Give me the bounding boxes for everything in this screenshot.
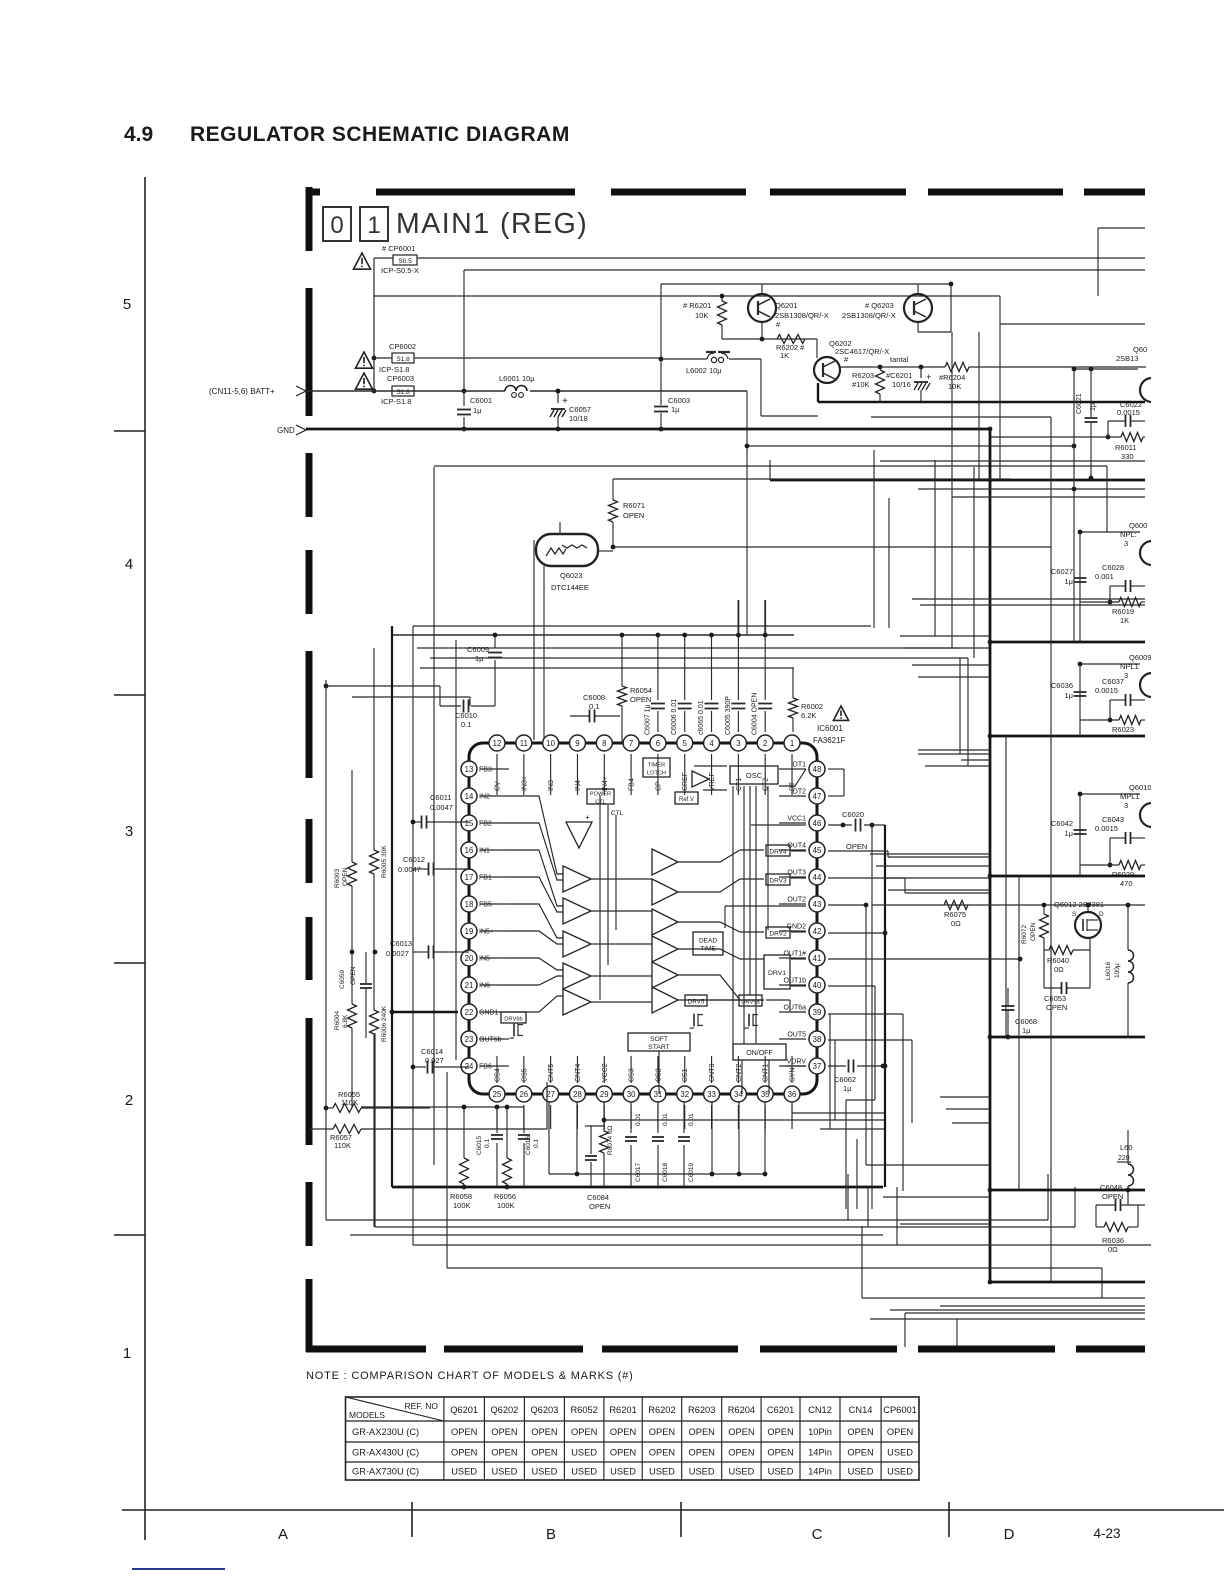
svg-text:R6029: R6029	[1112, 870, 1134, 879]
svg-text:OUT1b: OUT1b	[783, 978, 806, 985]
svg-text:L6001 10μ: L6001 10μ	[499, 374, 535, 383]
svg-text:24: 24	[465, 1062, 474, 1071]
svg-text:R6019: R6019	[1112, 607, 1134, 616]
svg-text:USED: USED	[689, 1466, 715, 1476]
svg-text:26: 26	[519, 1090, 528, 1099]
svg-text:Ref.V: Ref.V	[679, 797, 694, 803]
svg-text:C6037: C6037	[1102, 677, 1124, 686]
svg-text:USED: USED	[451, 1466, 477, 1476]
svg-text:R6036: R6036	[1102, 1236, 1124, 1245]
svg-text:CS4: CS4	[495, 1068, 502, 1082]
svg-text:21: 21	[465, 981, 474, 990]
svg-text:12: 12	[493, 739, 502, 748]
svg-text:FA3621F: FA3621F	[813, 736, 846, 745]
svg-text:0.1: 0.1	[533, 1139, 540, 1148]
svg-text:R6071: R6071	[623, 501, 645, 510]
svg-text:USED: USED	[848, 1466, 874, 1476]
svg-text:ICP-S0.5-X: ICP-S0.5-X	[381, 266, 419, 275]
svg-text:GR-AX230U (C): GR-AX230U (C)	[352, 1427, 419, 1437]
svg-text:1K: 1K	[1120, 616, 1129, 625]
svg-text:USED: USED	[728, 1466, 754, 1476]
svg-text:1μ: 1μ	[475, 654, 484, 663]
svg-text:1μ: 1μ	[843, 1084, 852, 1093]
svg-text:Q6203: Q6203	[530, 1405, 558, 1415]
svg-text:OPEN: OPEN	[491, 1447, 517, 1457]
svg-text:28: 28	[573, 1090, 582, 1099]
svg-text:CP: CP	[655, 781, 662, 791]
svg-text:D: D	[1004, 1526, 1015, 1543]
svg-text:DRV6b: DRV6b	[504, 1017, 523, 1023]
svg-text:2: 2	[125, 1092, 133, 1109]
svg-text:C6053: C6053	[1044, 994, 1066, 1003]
svg-text:3: 3	[736, 739, 740, 748]
svg-text:OPEN: OPEN	[623, 511, 644, 520]
svg-text:27: 27	[546, 1090, 555, 1099]
svg-text:2SB1308/QR/-X: 2SB1308/QR/-X	[775, 311, 829, 320]
svg-text:+: +	[562, 396, 568, 407]
svg-text:R6202: R6202	[648, 1405, 675, 1415]
svg-text:B: B	[546, 1526, 556, 1543]
svg-text:10: 10	[546, 739, 555, 748]
svg-text:4: 4	[125, 556, 133, 573]
svg-text:OPEN: OPEN	[630, 695, 651, 704]
svg-text:R6003: R6003	[334, 868, 341, 888]
svg-text:ON/OFF: ON/OFF	[746, 1050, 772, 1057]
svg-text:29: 29	[600, 1090, 609, 1099]
svg-text:39: 39	[813, 1008, 822, 1017]
svg-text:OPEN: OPEN	[887, 1427, 913, 1437]
svg-text:IN2-: IN2-	[479, 794, 493, 801]
svg-text:CNT5: CNT5	[548, 1064, 555, 1082]
svg-text:NPL:: NPL:	[1120, 530, 1137, 539]
svg-text:R6075: R6075	[944, 910, 966, 919]
svg-text:OUT6a: OUT6a	[783, 1005, 806, 1012]
svg-text:OUT1#: OUT1#	[783, 951, 806, 958]
svg-text:USED: USED	[571, 1447, 597, 1457]
svg-text:S1.8: S1.8	[396, 389, 410, 396]
svg-text:CNT3: CNT3	[709, 1064, 716, 1082]
svg-text:100K: 100K	[453, 1201, 471, 1210]
svg-text:4.9: 4.9	[124, 123, 153, 146]
svg-text:A: A	[278, 1526, 288, 1543]
svg-text:USED: USED	[887, 1447, 913, 1457]
svg-text:C6084: C6084	[587, 1193, 609, 1202]
svg-text:0.1: 0.1	[461, 720, 471, 729]
svg-text:CP6003: CP6003	[387, 374, 414, 383]
svg-text:L6016: L6016	[1105, 962, 1112, 980]
svg-text:CS3: CS3	[629, 1068, 636, 1082]
svg-text:R6006 240K: R6006 240K	[381, 1005, 388, 1042]
svg-text:3: 3	[125, 823, 133, 840]
svg-text:CV: CV	[495, 781, 502, 791]
svg-text:ICP-S1.8: ICP-S1.8	[379, 365, 409, 374]
svg-text:10K: 10K	[948, 382, 961, 391]
svg-text:ICP-S1.8: ICP-S1.8	[381, 397, 411, 406]
svg-text:6.2K: 6.2K	[801, 711, 816, 720]
svg-text:L6002 10μ: L6002 10μ	[686, 366, 722, 375]
svg-text:OPEN: OPEN	[847, 1427, 873, 1437]
svg-text:R6204: R6204	[728, 1405, 755, 1415]
svg-text:33: 33	[707, 1090, 716, 1099]
svg-text:C6009: C6009	[467, 645, 489, 654]
svg-text:D: D	[1099, 911, 1104, 918]
svg-text:C6010: C6010	[455, 711, 477, 720]
svg-text:c6065 0.01: c6065 0.01	[698, 700, 705, 735]
svg-text:C6021: C6021	[1076, 393, 1083, 414]
svg-text:C6062: C6062	[834, 1075, 856, 1084]
svg-text:0: 0	[330, 212, 343, 239]
svg-text:USED: USED	[491, 1466, 517, 1476]
svg-text:43: 43	[813, 900, 822, 909]
svg-text:FB4: FB4	[629, 778, 636, 791]
svg-text:10K: 10K	[695, 311, 708, 320]
svg-text:LOTCH: LOTCH	[647, 771, 666, 777]
svg-text:GR-AX430U (C): GR-AX430U (C)	[352, 1447, 419, 1457]
svg-text:R6005 30K: R6005 30K	[381, 845, 388, 878]
svg-text:OUT5: OUT5	[787, 1032, 806, 1039]
svg-text:OPEN: OPEN	[1046, 1003, 1067, 1012]
svg-text:FB2: FB2	[479, 821, 492, 828]
svg-text:Q600: Q600	[1129, 521, 1147, 530]
svg-text:C6007 1μ: C6007 1μ	[644, 705, 651, 736]
svg-text:R6072: R6072	[1021, 924, 1028, 944]
svg-text:FB1: FB1	[479, 875, 492, 882]
svg-text:6: 6	[656, 739, 660, 748]
svg-text:R6040: R6040	[1047, 956, 1069, 965]
svg-text:CS1: CS1	[682, 1068, 689, 1082]
svg-text:SYN: SYN	[790, 1068, 797, 1082]
svg-text:1K: 1K	[780, 351, 789, 360]
svg-text:17: 17	[465, 873, 474, 882]
svg-text:IN3-: IN3-	[548, 777, 555, 791]
svg-text:DTC144EE: DTC144EE	[551, 583, 589, 592]
svg-text:IN6-: IN6-	[479, 983, 493, 990]
svg-text:C: C	[812, 1526, 823, 1543]
svg-text:CN12: CN12	[808, 1405, 832, 1415]
svg-text:47: 47	[813, 792, 822, 801]
svg-text:VDRV: VDRV	[787, 1059, 807, 1066]
svg-text:SOFT: SOFT	[650, 1036, 668, 1043]
svg-text:REGULATOR SCHEMATIC DIAGRAM: REGULATOR SCHEMATIC DIAGRAM	[190, 123, 570, 146]
svg-text:#C6201: #C6201	[886, 371, 912, 380]
svg-text:S1.8: S1.8	[396, 356, 410, 363]
svg-text:USED: USED	[649, 1466, 675, 1476]
svg-text:1μ: 1μ	[1065, 829, 1074, 838]
svg-text:C6011: C6011	[430, 793, 452, 802]
svg-text:38: 38	[813, 1035, 822, 1044]
svg-text:DEAD: DEAD	[699, 938, 717, 945]
svg-text:23: 23	[465, 1035, 474, 1044]
svg-text:18: 18	[465, 900, 474, 909]
svg-text:C6003: C6003	[668, 396, 690, 405]
svg-text:C6059: C6059	[339, 969, 346, 989]
svg-text:0Ω: 0Ω	[1054, 965, 1064, 974]
svg-text:10/18: 10/18	[569, 414, 588, 423]
svg-text:REF. NO: REF. NO	[404, 1401, 438, 1411]
svg-text:0.0027: 0.0027	[386, 949, 409, 958]
svg-text:0.1: 0.1	[484, 1139, 491, 1148]
svg-text:41: 41	[813, 954, 822, 963]
svg-text:48: 48	[813, 765, 822, 774]
svg-text:C6057: C6057	[569, 405, 591, 414]
svg-text:0.0015: 0.0015	[1095, 686, 1118, 695]
svg-text:OPEN: OPEN	[847, 1447, 873, 1457]
svg-text:(CN11-5,6) BATT+: (CN11-5,6) BATT+	[209, 387, 275, 396]
svg-text:GR-AX730U (C): GR-AX730U (C)	[352, 1466, 419, 1476]
svg-text:1μ: 1μ	[1022, 1026, 1031, 1035]
svg-text:C6018: C6018	[662, 1162, 669, 1182]
svg-text:R6011: R6011	[1115, 443, 1137, 452]
svg-text:IN1-: IN1-	[479, 848, 493, 855]
svg-text:25: 25	[493, 1090, 502, 1099]
svg-text:C6043: C6043	[1102, 815, 1124, 824]
svg-text:OPEN: OPEN	[728, 1427, 754, 1437]
svg-text:R6058: R6058	[450, 1192, 472, 1201]
svg-text:C6019: C6019	[688, 1162, 695, 1182]
svg-text:OPEN: OPEN	[491, 1427, 517, 1437]
svg-text:Q6010: Q6010	[1129, 783, 1152, 792]
svg-text:MAIN1 (REG): MAIN1 (REG)	[396, 208, 588, 240]
svg-text:32: 32	[680, 1090, 689, 1099]
svg-text:C6017: C6017	[635, 1162, 642, 1182]
svg-text:14Pin: 14Pin	[808, 1466, 832, 1476]
svg-text:OPEN: OPEN	[571, 1427, 597, 1437]
svg-text:USED: USED	[571, 1466, 597, 1476]
svg-text:4-23: 4-23	[1093, 1526, 1120, 1541]
svg-text:46: 46	[813, 819, 822, 828]
svg-text:DRV1: DRV1	[768, 970, 786, 977]
svg-text:3: 3	[1124, 801, 1128, 810]
svg-text:R6054: R6054	[630, 686, 652, 695]
svg-text:Q6202: Q6202	[490, 1405, 518, 1415]
svg-text:C6201: C6201	[767, 1405, 794, 1415]
svg-text:OPEN: OPEN	[689, 1427, 715, 1437]
svg-text:C6008: C6008	[583, 693, 605, 702]
svg-text:1: 1	[790, 739, 794, 748]
svg-text:C6013: C6013	[390, 939, 412, 948]
svg-text:NOTE : COMPARISON CHART OF: NOTE : COMPARISON CHART OF MODELS & MARK…	[306, 1370, 634, 1382]
svg-text:19: 19	[465, 927, 474, 936]
svg-text:14Pin: 14Pin	[808, 1447, 832, 1457]
svg-text:2SB13: 2SB13	[1116, 354, 1139, 363]
svg-text:2: 2	[763, 739, 767, 748]
svg-text:OPEN: OPEN	[451, 1427, 477, 1437]
svg-text:Q6009: Q6009	[1129, 653, 1152, 662]
svg-text:1μ: 1μ	[473, 406, 482, 415]
svg-text:1: 1	[367, 212, 380, 239]
svg-text:0.0015: 0.0015	[1095, 824, 1118, 833]
svg-text:OPEN: OPEN	[1030, 922, 1037, 941]
svg-text:OPEN: OPEN	[451, 1447, 477, 1457]
svg-text:110K: 110K	[334, 1141, 351, 1150]
svg-text:R6002: R6002	[801, 702, 823, 711]
svg-text:100μ: 100μ	[1114, 963, 1121, 978]
svg-text:#10K: #10K	[852, 380, 870, 389]
svg-text:USED: USED	[610, 1466, 636, 1476]
svg-text:GND: GND	[277, 426, 295, 435]
svg-text:USED: USED	[531, 1466, 557, 1476]
svg-text:7: 7	[629, 739, 633, 748]
svg-text:100K: 100K	[497, 1201, 515, 1210]
svg-text:IN5+: IN5+	[479, 929, 494, 936]
svg-text:OPEN: OPEN	[689, 1447, 715, 1457]
svg-text:CNT4: CNT4	[575, 1064, 582, 1082]
svg-text:OPEN: OPEN	[610, 1427, 636, 1437]
svg-text:# R6201: # R6201	[683, 301, 711, 310]
svg-text:S: S	[1072, 911, 1077, 918]
svg-text:0.0047: 0.0047	[430, 803, 453, 812]
svg-text:C6028: C6028	[1102, 563, 1124, 572]
svg-text:OPEN: OPEN	[649, 1427, 675, 1437]
svg-text:0Ω: 0Ω	[1108, 1245, 1118, 1254]
svg-text:IN3+: IN3+	[521, 776, 528, 791]
svg-text:10/16: 10/16	[892, 380, 911, 389]
svg-text:40: 40	[813, 981, 822, 990]
svg-text:C6036: C6036	[1051, 681, 1073, 690]
svg-text:Q6201: Q6201	[775, 301, 798, 310]
svg-text:C6014: C6014	[421, 1047, 443, 1056]
svg-text:VREF: VREF	[709, 772, 716, 791]
svg-text:OPEN: OPEN	[350, 966, 357, 985]
svg-text:L60: L60	[1120, 1143, 1133, 1152]
svg-text:TIMER: TIMER	[648, 763, 665, 769]
svg-text:C6015: C6015	[476, 1135, 483, 1155]
svg-text:CREF: CREF	[682, 772, 689, 791]
svg-text:CP6002: CP6002	[389, 342, 416, 351]
svg-text:FB6: FB6	[479, 1064, 492, 1071]
svg-text:10Pin: 10Pin	[808, 1427, 832, 1437]
svg-text:IN4-: IN4-	[575, 777, 582, 791]
svg-text:OPEN: OPEN	[531, 1427, 557, 1437]
svg-text:OPEN: OPEN	[610, 1447, 636, 1457]
svg-text:R6056: R6056	[494, 1192, 516, 1201]
svg-text:START: START	[648, 1044, 670, 1051]
svg-text:OPEN: OPEN	[767, 1447, 793, 1457]
svg-text:11: 11	[520, 739, 528, 748]
svg-text:5: 5	[123, 296, 131, 313]
svg-text:9: 9	[575, 739, 579, 748]
svg-text:2SB1308/QR/-X: 2SB1308/QR/-X	[842, 311, 896, 320]
svg-text:36: 36	[788, 1090, 797, 1099]
svg-text:FB3: FB3	[479, 767, 492, 774]
svg-text:C6006 0.01: C6006 0.01	[671, 699, 678, 735]
svg-text:C6001: C6001	[470, 396, 492, 405]
svg-text:1: 1	[123, 1345, 131, 1362]
svg-text:Q60: Q60	[1133, 345, 1147, 354]
svg-text:15: 15	[465, 819, 474, 828]
svg-text:R6004: R6004	[334, 1010, 341, 1030]
svg-text:DT1: DT1	[793, 762, 806, 769]
svg-text:DRV3: DRV3	[769, 878, 787, 885]
svg-text:USED: USED	[887, 1466, 913, 1476]
svg-text:1μ: 1μ	[1065, 577, 1074, 586]
svg-text:R6052: R6052	[570, 1405, 597, 1415]
svg-text:14: 14	[465, 792, 474, 801]
svg-text:1μ: 1μ	[1090, 403, 1097, 411]
svg-text:OPEN: OPEN	[846, 842, 867, 851]
svg-text:S0.5: S0.5	[398, 258, 412, 265]
svg-text:13: 13	[465, 765, 474, 774]
svg-text:CP6001: CP6001	[883, 1405, 917, 1415]
svg-text:22: 22	[465, 1008, 474, 1017]
svg-text:5: 5	[683, 739, 688, 748]
svg-text:C6027: C6027	[1051, 567, 1073, 576]
svg-text:Q6012 2SJ381: Q6012 2SJ381	[1054, 900, 1104, 909]
svg-text:OPEN: OPEN	[728, 1447, 754, 1457]
svg-text:MODELS: MODELS	[349, 1410, 385, 1420]
svg-text:USED: USED	[768, 1466, 794, 1476]
svg-text:C6012: C6012	[403, 855, 425, 864]
svg-text:VCC2: VCC2	[602, 1063, 609, 1082]
svg-text:MPL1: MPL1	[1120, 792, 1140, 801]
svg-text:16: 16	[465, 846, 474, 855]
svg-text:4: 4	[709, 739, 714, 748]
svg-text:OUT6b: OUT6b	[479, 1037, 502, 1044]
svg-text:DT2: DT2	[793, 789, 806, 796]
svg-text:31: 31	[654, 1090, 663, 1099]
svg-text:C6004 OPEN: C6004 OPEN	[752, 693, 759, 735]
svg-text:30: 30	[627, 1090, 636, 1099]
svg-text:R6023: R6023	[1112, 725, 1134, 734]
svg-text:C6042: C6042	[1051, 819, 1073, 828]
svg-text:Q6023: Q6023	[560, 571, 583, 580]
svg-text:IC6001: IC6001	[817, 724, 843, 733]
svg-text:IN5-: IN5-	[479, 956, 493, 963]
svg-text:CS5: CS5	[521, 1068, 528, 1082]
svg-text:OPEN: OPEN	[531, 1447, 557, 1457]
svg-text:# Q6203: # Q6203	[865, 301, 894, 310]
svg-text:0.001: 0.001	[1095, 572, 1114, 581]
svg-text:R6203: R6203	[688, 1405, 715, 1415]
svg-text:VCC1: VCC1	[787, 816, 806, 823]
svg-text:45: 45	[813, 846, 822, 855]
svg-text:Q6201: Q6201	[450, 1405, 478, 1415]
svg-text:OUT2: OUT2	[787, 897, 806, 904]
svg-text:3: 3	[1124, 539, 1128, 548]
svg-text:OPEN: OPEN	[649, 1447, 675, 1457]
svg-text:# CP6001: # CP6001	[382, 244, 415, 253]
svg-text:330: 330	[1121, 452, 1134, 461]
svg-text:C6068: C6068	[1015, 1017, 1037, 1026]
svg-text:GND1: GND1	[479, 1010, 499, 1017]
svg-text:FB5: FB5	[479, 902, 492, 909]
svg-text:R6203: R6203	[852, 371, 874, 380]
svg-text:C6005 390P: C6005 390P	[725, 696, 732, 735]
svg-text:3: 3	[1124, 671, 1128, 680]
svg-text:+: +	[926, 372, 931, 382]
svg-text:1μ: 1μ	[1065, 691, 1074, 700]
svg-text:C6048: C6048	[1100, 1183, 1122, 1192]
svg-text:1μ: 1μ	[671, 405, 680, 414]
svg-text:OPEN: OPEN	[767, 1427, 793, 1437]
svg-text:44: 44	[813, 873, 822, 882]
svg-text:NPL1: NPL1	[1120, 662, 1139, 671]
svg-text:CTL: CTL	[611, 810, 624, 817]
svg-text:42: 42	[813, 927, 822, 936]
svg-text:8: 8	[602, 739, 606, 748]
svg-text:37: 37	[813, 1062, 822, 1071]
svg-text:470: 470	[1120, 879, 1133, 888]
svg-text:CN14: CN14	[849, 1405, 873, 1415]
svg-text:C6020: C6020	[842, 810, 864, 819]
svg-text:20: 20	[465, 954, 474, 963]
svg-text:OSC: OSC	[746, 771, 763, 780]
svg-text:0.0015: 0.0015	[1117, 408, 1140, 417]
svg-text:tantal: tantal	[890, 355, 909, 364]
svg-text:0Ω: 0Ω	[951, 919, 961, 928]
svg-text:R6201: R6201	[609, 1405, 636, 1415]
svg-text:OPEN: OPEN	[589, 1202, 610, 1211]
